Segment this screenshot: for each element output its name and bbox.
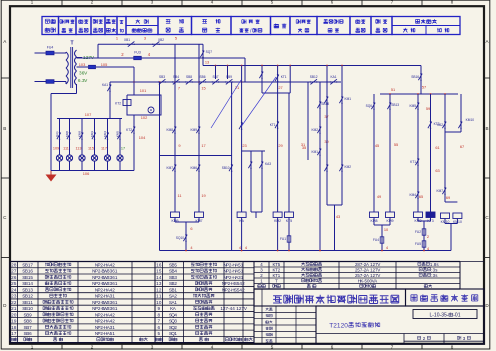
svg-text:KA1: KA1 [330, 75, 336, 79]
svg-text:4: 4 [174, 312, 177, 317]
svg-text:1: 1 [115, 306, 118, 311]
svg-text:A: A [366, 267, 369, 272]
svg-text:1: 1 [174, 300, 177, 305]
svg-text:7: 7 [14, 331, 17, 336]
svg-text:8: 8 [158, 312, 161, 317]
svg-text:43: 43 [336, 214, 340, 219]
svg-text:1: 1 [30, 300, 33, 305]
svg-text:2: 2 [242, 281, 245, 286]
svg-text:55: 55 [394, 142, 398, 147]
svg-text:1: 1 [458, 313, 461, 319]
svg-text:V: V [377, 267, 380, 272]
svg-text:SB10: SB10 [222, 166, 230, 170]
svg-text:FU2: FU2 [415, 230, 421, 234]
svg-text:T: T [70, 41, 73, 47]
svg-text:0: 0 [344, 323, 348, 330]
svg-text:0: 0 [14, 312, 17, 317]
svg-text:61: 61 [435, 145, 439, 150]
svg-text:2: 2 [112, 312, 115, 317]
svg-text:9: 9 [158, 306, 161, 311]
svg-text:5: 5 [158, 331, 161, 336]
svg-text:KM9: KM9 [190, 128, 197, 132]
svg-text:7: 7 [29, 325, 32, 330]
svg-text:113: 113 [75, 147, 81, 151]
svg-text:107: 107 [85, 112, 92, 117]
svg-text:8: 8 [29, 319, 32, 324]
svg-text:5: 5 [174, 262, 177, 267]
svg-text:KT1: KT1 [410, 160, 416, 164]
svg-text:KM2: KM2 [344, 165, 351, 169]
svg-text:104: 104 [139, 135, 146, 140]
svg-text:6: 6 [331, 344, 334, 349]
svg-text:V: V [377, 262, 380, 267]
svg-text:KM2: KM2 [311, 128, 318, 132]
svg-text:2: 2 [112, 319, 115, 324]
svg-text:2: 2 [174, 325, 177, 330]
svg-text:102: 102 [141, 115, 148, 120]
svg-text:27: 27 [278, 85, 282, 90]
svg-text:V: V [377, 273, 380, 278]
svg-text:3: 3 [30, 287, 33, 292]
svg-text:115: 115 [88, 147, 94, 151]
svg-text:7: 7 [14, 269, 17, 274]
svg-text:1: 1 [112, 294, 115, 299]
svg-text:T: T [275, 278, 278, 283]
svg-text:9: 9 [29, 312, 32, 317]
svg-text:KM8: KM8 [65, 131, 69, 138]
svg-text:109: 109 [53, 147, 59, 151]
svg-text:A: A [374, 278, 377, 283]
svg-text:2: 2 [159, 287, 162, 292]
svg-text:6: 6 [29, 331, 32, 336]
svg-text:KM4: KM4 [103, 131, 107, 138]
svg-text:2: 2 [91, 344, 94, 349]
svg-text:1: 1 [241, 269, 244, 274]
svg-text:17: 17 [121, 147, 125, 151]
svg-text:1: 1 [115, 300, 118, 305]
svg-text:1: 1 [112, 325, 115, 330]
svg-text:KA1: KA1 [55, 131, 59, 137]
svg-text:9: 9 [178, 143, 180, 148]
svg-text:FU4: FU4 [373, 238, 379, 242]
svg-text:17: 17 [201, 143, 205, 148]
svg-text:63: 63 [435, 168, 439, 173]
svg-text:1: 1 [31, 344, 34, 349]
svg-text:9: 9 [14, 319, 17, 324]
svg-text:A: A [366, 273, 369, 278]
svg-text:KM1: KM1 [344, 97, 351, 101]
svg-text:FU3: FU3 [134, 51, 141, 55]
svg-text:SB12: SB12 [310, 75, 318, 79]
svg-text:23: 23 [242, 143, 246, 148]
svg-text:1: 1 [112, 331, 115, 336]
svg-text:XB2: XB2 [158, 38, 164, 42]
svg-text:7: 7 [158, 319, 161, 324]
svg-text:6: 6 [159, 262, 162, 267]
svg-text:67: 67 [460, 144, 464, 149]
svg-text:101: 101 [140, 88, 147, 93]
svg-text:106: 106 [83, 171, 90, 176]
svg-text:KA2: KA2 [437, 123, 443, 127]
svg-text:4: 4 [30, 281, 33, 286]
svg-text:A: A [366, 262, 369, 267]
svg-text:13: 13 [205, 60, 209, 65]
svg-text:6: 6 [158, 325, 161, 330]
svg-text:0: 0 [159, 300, 162, 305]
svg-text:KM9: KM9 [78, 131, 82, 138]
svg-text:KA3: KA3 [265, 162, 271, 166]
svg-text:SB13: SB13 [391, 103, 399, 107]
svg-text:KM7: KM7 [436, 189, 443, 193]
svg-text:4: 4 [159, 275, 162, 280]
svg-text:5: 5 [159, 269, 162, 274]
svg-text:7: 7 [178, 86, 180, 91]
svg-text:FU4: FU4 [47, 45, 54, 49]
svg-text:V: V [84, 78, 87, 83]
svg-text:4: 4 [14, 287, 17, 292]
svg-text:SB8: SB8 [186, 75, 192, 79]
svg-text:5: 5 [175, 35, 177, 40]
svg-text:5: 5 [271, 344, 274, 349]
svg-text:6: 6 [190, 226, 192, 231]
svg-text:11: 11 [177, 193, 181, 198]
svg-text:111: 111 [63, 147, 69, 151]
svg-text:15: 15 [201, 86, 205, 91]
svg-text:1: 1 [116, 35, 118, 40]
svg-text:KM4: KM4 [409, 193, 416, 197]
svg-text:3: 3 [159, 281, 162, 286]
svg-text:KM7: KM7 [166, 166, 173, 170]
svg-text:1: 1 [14, 306, 17, 311]
svg-text:3: 3 [144, 35, 146, 40]
svg-text:8: 8 [14, 325, 17, 330]
svg-text:8: 8 [14, 262, 17, 267]
svg-text:1: 1 [159, 294, 162, 299]
svg-text:XB1: XB1 [124, 38, 130, 42]
svg-text:KM5: KM5 [409, 104, 416, 108]
svg-text:51: 51 [391, 87, 395, 92]
svg-text:KT2: KT2 [115, 102, 121, 106]
svg-text:1: 1 [241, 275, 244, 280]
svg-text:SB3: SB3 [159, 75, 165, 79]
svg-text:103: 103 [79, 62, 86, 67]
svg-text:19: 19 [201, 193, 205, 198]
svg-text:1: 1 [174, 331, 177, 336]
svg-text:1: 1 [174, 287, 177, 292]
svg-text:59: 59 [426, 106, 430, 111]
svg-text:2: 2 [174, 294, 177, 299]
svg-text:1: 1 [115, 275, 118, 280]
svg-text:SQ10: SQ10 [176, 236, 184, 240]
svg-text:KM10: KM10 [466, 118, 475, 122]
svg-text:2: 2 [30, 294, 33, 299]
svg-text:B: B [3, 126, 6, 131]
svg-text:SQ7: SQ7 [206, 50, 213, 54]
svg-text:8: 8 [451, 344, 454, 349]
svg-text:29: 29 [278, 143, 282, 148]
svg-text:KT1: KT1 [270, 123, 276, 127]
svg-text:SB6: SB6 [199, 75, 205, 79]
svg-text:2: 2 [14, 300, 17, 305]
svg-text:KT1: KT1 [281, 75, 287, 79]
svg-text:SB16: SB16 [411, 75, 419, 79]
svg-text:57: 57 [422, 85, 426, 90]
svg-text:7: 7 [391, 344, 394, 349]
svg-text:3: 3 [174, 275, 177, 280]
svg-text:7: 7 [30, 262, 33, 267]
svg-text:2: 2 [112, 262, 115, 267]
svg-text:5: 5 [14, 281, 17, 286]
svg-text:1: 1 [241, 262, 244, 267]
svg-text:4: 4 [232, 306, 235, 311]
svg-text:3: 3 [14, 294, 17, 299]
svg-text:KM5: KM5 [116, 131, 120, 138]
svg-text:105: 105 [101, 62, 108, 67]
svg-text:6: 6 [14, 275, 17, 280]
svg-text:KM8: KM8 [166, 128, 173, 132]
svg-text:KM1: KM1 [311, 150, 318, 154]
svg-text:1: 1 [115, 281, 118, 286]
svg-text:4: 4 [174, 269, 177, 274]
svg-text:0: 0 [30, 306, 33, 311]
svg-text:117: 117 [101, 147, 107, 151]
svg-text:49: 49 [377, 194, 381, 199]
svg-text:SB4: SB4 [173, 75, 179, 79]
svg-text:1: 1 [115, 269, 118, 274]
svg-text:2: 2 [112, 287, 115, 292]
svg-text:B: B [485, 126, 488, 131]
svg-text:2: 2 [174, 281, 177, 286]
svg-text:65: 65 [419, 194, 423, 199]
svg-text:45: 45 [375, 143, 379, 148]
svg-text:SQ6: SQ6 [366, 104, 373, 108]
svg-text:SB9: SB9 [226, 75, 232, 79]
svg-text:FU1: FU1 [280, 237, 286, 241]
svg-text:69: 69 [446, 195, 450, 200]
svg-text:FU5: FU5 [415, 242, 421, 246]
svg-text:5: 5 [30, 275, 33, 280]
svg-text:6: 6 [30, 269, 33, 274]
svg-text:4: 4 [211, 344, 214, 349]
svg-text:3: 3 [151, 344, 154, 349]
svg-text:2: 2 [242, 287, 245, 292]
svg-text:KA1: KA1 [102, 83, 108, 87]
svg-text:KM3: KM3 [90, 131, 94, 138]
svg-text:3: 3 [174, 319, 177, 324]
svg-text:35: 35 [302, 145, 306, 150]
svg-text:KM6: KM6 [190, 166, 197, 170]
svg-text:2: 2 [427, 234, 429, 239]
svg-text:KT2: KT2 [126, 128, 132, 132]
